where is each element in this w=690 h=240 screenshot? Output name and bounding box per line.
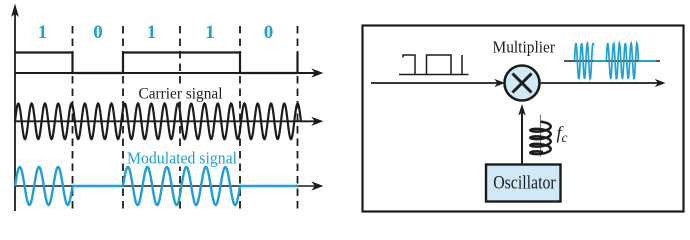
input digital pulse waveform [399, 55, 469, 75]
carrier signal axis with arrow [15, 117, 323, 126]
output mini-waveform: sine burst 1 [575, 43, 594, 79]
white knockout behind Carrier signal label [137, 86, 224, 102]
svg-text:Multiplier: Multiplier [493, 37, 556, 56]
svg-text:Modulated signal: Modulated signal [127, 148, 237, 167]
svg-text:1: 1 [38, 22, 48, 43]
svg-text:1: 1 [205, 22, 215, 43]
svg-text:0: 0 [93, 22, 103, 43]
output mini-waveform: blue flat segments [594, 60, 607, 62]
carrier signal sine wave [15, 104, 301, 140]
modulated signal flat segment (bit 0) [73, 185, 124, 187]
modulated signal sine burst (bits 1 1) [123, 167, 240, 205]
svg-text:1: 1 [147, 22, 157, 43]
input wire with arrow into multiplier [371, 79, 505, 87]
dashed bit-boundary line at x=297.5 [297, 26, 299, 212]
dashed bit-boundary line at x=240 [239, 26, 241, 212]
output modulated mini-waveform: baseline [564, 60, 660, 62]
svg-text:fc: fc [557, 123, 568, 145]
block diagram outer box [363, 26, 684, 212]
digital signal axis with arrow [15, 68, 323, 77]
multiplier U1 (circle with X) [505, 66, 540, 101]
modulated signal axis with arrow [15, 181, 323, 190]
dashed bit-boundary line at x=180 [179, 26, 181, 212]
oscillator-to-multiplier wire with up arrow [518, 104, 526, 165]
vertical axis (left plots) [11, 4, 19, 212]
dashed bit-boundary line at x=72.5 [72, 26, 74, 212]
output wire with arrow [540, 79, 666, 87]
coil symbol (carrier frequency) [530, 115, 550, 157]
dashed bit-boundary line at x=123 [122, 26, 124, 212]
white knockout behind Modulated signal label [126, 150, 239, 167]
modulated signal sine burst (bit 1) [15, 167, 73, 205]
digital signal waveform [15, 53, 298, 74]
output mini-waveform: sine burst 2 [606, 43, 638, 79]
svg-text:Carrier signal: Carrier signal [139, 86, 224, 103]
oscillator block [486, 165, 561, 202]
svg-text:0: 0 [264, 22, 274, 43]
modulated signal flat segment (bit 0) [240, 185, 298, 187]
svg-text:Oscillator: Oscillator [493, 173, 556, 194]
